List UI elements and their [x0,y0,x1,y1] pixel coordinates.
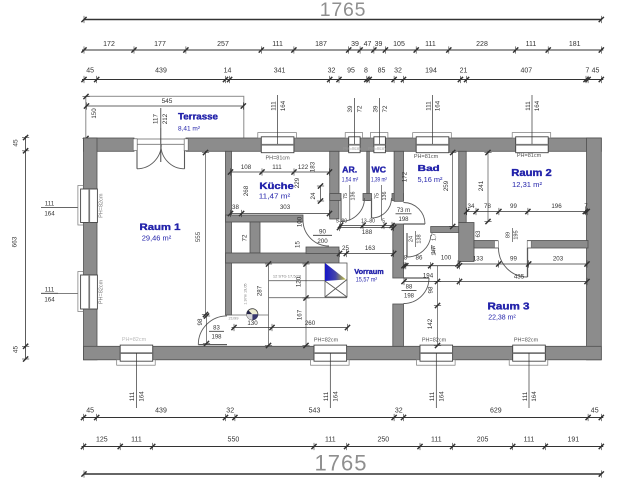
svg-text:Vorraum: Vorraum [354,267,384,276]
outer wall right [587,138,602,360]
svg-text:32: 32 [394,68,402,75]
svg-text:259: 259 [443,180,450,191]
svg-text:5: 5 [382,218,385,224]
svg-text:435: 435 [514,274,525,281]
svg-text:341: 341 [274,68,286,75]
window raum3 bottom sw [417,360,456,365]
svg-text:164: 164 [531,391,538,402]
svg-text:550: 550 [228,437,240,444]
stair outline lines [268,263,270,346]
svg-text:111: 111 [45,201,55,208]
door raum3 [404,277,430,279]
svg-text:164: 164 [44,211,55,218]
window raum1 left upper [78,186,83,226]
svg-text:303: 303 [280,204,291,211]
dim row top window edges [82,49,603,51]
svg-text:85: 85 [378,68,386,75]
wall pillar raum2 sw [459,223,474,262]
dim row bottom wall segments [82,417,604,419]
svg-text:45: 45 [86,68,94,75]
svg-text:32: 32 [226,408,234,415]
svg-text:39: 39 [347,105,354,112]
svg-text:PH=8cm: PH=8cm [368,146,386,151]
svg-text:111: 111 [131,437,142,444]
svg-text:75: 75 [375,193,381,199]
svg-text:191: 191 [567,437,579,444]
window raum3 bottom se [509,360,548,365]
svg-text:111: 111 [522,391,529,401]
window stair bottom [311,360,350,365]
svg-text:PH=82cm: PH=82cm [422,338,447,344]
svg-text:105: 105 [393,41,405,48]
kueche interior dims [230,171,330,173]
svg-text:75: 75 [343,193,349,199]
svg-text:111: 111 [526,41,537,48]
svg-text:183: 183 [310,161,317,172]
survey circle marker [247,309,258,320]
svg-text:14: 14 [224,68,232,75]
svg-text:PH=82cm: PH=82cm [99,279,105,304]
svg-text:125: 125 [96,437,108,444]
svg-text:Bad: Bad [418,163,440,173]
svg-text:24: 24 [409,236,415,242]
svg-text:138: 138 [416,234,422,243]
svg-text:12,31 m²: 12,31 m² [512,180,543,189]
svg-text:100: 100 [297,216,304,227]
svg-text:29,46 m²: 29,46 m² [142,234,172,243]
svg-text:86: 86 [416,255,423,262]
svg-text:164: 164 [534,100,541,111]
door corridor east [406,233,408,257]
svg-text:98: 98 [428,286,435,293]
wall kueche east / AR west [330,151,339,219]
svg-text:72: 72 [242,234,249,241]
wall raum1 east (W1) [226,151,232,315]
svg-text:8,41 m²: 8,41 m² [178,126,201,133]
svg-text:122: 122 [298,164,309,171]
svg-text:205: 205 [477,437,489,444]
svg-text:PH=81cm: PH=81cm [414,154,439,160]
door kueche [303,220,329,246]
svg-text:72: 72 [382,105,389,112]
svg-text:439: 439 [155,68,167,75]
svg-text:5,16 m²: 5,16 m² [418,175,443,184]
svg-text:99: 99 [510,203,517,210]
svg-text:1765: 1765 [320,0,367,21]
svg-text:164: 164 [439,391,446,402]
svg-text:167: 167 [297,309,304,320]
svg-text:21/99: 21/99 [228,316,239,321]
wall bad south [431,227,461,233]
svg-text:1,54 m²: 1,54 m² [342,178,359,184]
window kueche top [258,133,297,138]
svg-text:1765: 1765 [315,451,368,476]
dim row bottom window edges [82,446,604,448]
stair icon [325,263,347,297]
svg-text:111: 111 [45,287,55,294]
svg-text:78: 78 [484,203,491,210]
svg-text:45: 45 [13,346,20,354]
svg-text:111: 111 [525,101,532,111]
svg-text:7: 7 [586,68,590,75]
svg-text:PH=81cm: PH=81cm [265,156,290,162]
wall AR/WC partition [367,151,370,200]
svg-text:39: 39 [372,105,379,112]
svg-text:111: 111 [272,41,283,48]
svg-text:11,47 m²: 11,47 m² [259,192,291,201]
svg-text:111: 111 [270,101,277,111]
wall stairwell north [226,253,340,263]
svg-text:164: 164 [333,391,340,402]
svg-text:136: 136 [382,192,388,201]
terrasse dim 545 [86,105,244,107]
dim row top total 1765 [84,19,601,21]
wall AR/WC south stubs [330,194,341,201]
svg-text:164: 164 [435,100,442,111]
svg-text:45: 45 [13,139,20,147]
svg-text:21: 21 [460,68,468,75]
svg-text:629: 629 [490,408,502,415]
wall kueche south [226,215,304,222]
wall bad east / raum2 west [459,151,467,222]
svg-text:142: 142 [427,318,434,329]
svg-text:99: 99 [510,256,517,263]
svg-text:WC: WC [372,164,387,174]
wall nook stub [250,222,260,253]
wall raum2 south east part [528,241,589,249]
svg-text:287: 287 [257,285,264,296]
svg-text:136: 136 [351,192,357,201]
svg-text:439: 439 [155,408,167,415]
svg-text:228: 228 [476,41,488,48]
svg-text:241: 241 [478,180,485,191]
svg-text:108: 108 [241,164,252,171]
svg-text:268: 268 [243,185,250,196]
terrasse outline [86,96,244,139]
svg-text:15: 15 [295,241,302,248]
svg-text:39: 39 [351,41,359,48]
svg-text:1.97m 19,05: 1.97m 19,05 [244,283,248,304]
svg-text:663: 663 [12,236,19,247]
terrasse dim 150 [83,94,88,99]
svg-text:163: 163 [365,245,376,252]
svg-text:117: 117 [153,114,160,124]
svg-text:250: 250 [377,437,389,444]
svg-text:100: 100 [441,255,452,262]
door WC [371,198,373,218]
svg-text:Terrasse: Terrasse [178,112,218,123]
svg-text:188: 188 [362,229,373,236]
dim 130 260 [232,327,349,329]
window bad top [413,133,452,138]
svg-text:24: 24 [310,192,317,199]
svg-text:164: 164 [280,100,287,111]
wall vorraum/raum3 west mid [393,224,404,278]
door raum1 from stair area [198,344,227,346]
svg-text:203: 203 [553,256,564,263]
svg-text:PH=82cm: PH=82cm [314,338,339,344]
svg-text:194: 194 [425,68,437,75]
window AR top [345,133,362,138]
svg-text:98: 98 [197,318,204,325]
window raum2 top [512,133,551,138]
svg-text:198: 198 [404,294,415,300]
svg-text:8: 8 [364,68,368,75]
svg-text:147: 147 [431,245,437,254]
svg-text:45: 45 [591,408,599,415]
dim row top wall segments [82,79,603,81]
svg-text:88: 88 [406,285,413,291]
svg-text:172: 172 [103,41,115,48]
svg-text:111: 111 [425,101,432,111]
wall raum2 south west part [474,241,498,249]
door raum2 [527,248,529,277]
svg-text:1,7: 1,7 [432,233,438,241]
outer wall bottom [84,346,121,360]
svg-text:164: 164 [139,391,146,402]
svg-text:150: 150 [91,108,98,119]
svg-text:PH=82cm: PH=82cm [514,338,539,344]
svg-text:45: 45 [592,68,600,75]
svg-text:198: 198 [398,217,409,223]
svg-text:260: 260 [305,320,316,327]
svg-text:111: 111 [524,437,535,444]
svg-text:32: 32 [328,68,336,75]
svg-text:212: 212 [162,113,169,124]
window WC top [370,133,388,138]
svg-text:133: 133 [473,256,484,263]
svg-text:111: 111 [429,391,436,401]
svg-text:25: 25 [342,245,349,252]
svg-text:130: 130 [247,320,258,327]
outer wall left [84,138,98,189]
svg-text:89: 89 [506,232,512,238]
svg-text:543: 543 [309,408,321,415]
raum3 dims [458,263,588,265]
svg-text:83: 83 [213,326,220,332]
svg-text:545: 545 [162,98,173,105]
corridor dims [339,227,394,229]
svg-text:7: 7 [584,203,588,210]
svg-text:257: 257 [217,41,229,48]
svg-text:172: 172 [402,171,409,182]
window raum1 bottom [117,360,156,365]
svg-text:181: 181 [569,41,581,48]
svg-text:200: 200 [317,238,328,245]
door bad [404,223,426,225]
svg-text:195: 195 [513,230,519,239]
svg-text:PH=81cm: PH=81cm [517,153,542,159]
door AR [340,198,342,222]
svg-text:164: 164 [44,296,55,303]
dim col left 45/663/45 [25,136,27,359]
svg-text:177: 177 [154,41,166,48]
svg-text:111: 111 [272,164,282,171]
svg-text:63: 63 [475,230,482,237]
svg-text:Raum 3: Raum 3 [488,302,531,313]
svg-text:198: 198 [211,335,222,341]
svg-text:45: 45 [86,408,94,415]
svg-text:111: 111 [431,437,442,444]
wall WC east / Bad west upper [394,151,403,201]
svg-text:111: 111 [425,41,436,48]
svg-text:229: 229 [294,177,301,188]
svg-text:73 m: 73 m [397,208,410,214]
svg-text:196: 196 [551,203,562,210]
svg-text:PH=82cm: PH=82cm [122,337,147,343]
svg-text:22,38 m²: 22,38 m² [488,313,516,322]
svg-text:90: 90 [319,229,326,236]
svg-text:95: 95 [347,68,355,75]
svg-text:187: 187 [315,41,327,48]
svg-text:111: 111 [129,391,136,401]
svg-text:39: 39 [375,41,383,48]
svg-text:PH=8cm: PH=8cm [343,146,361,151]
svg-text:407: 407 [520,68,532,75]
svg-text:38: 38 [232,204,239,211]
svg-text:PH=82cm: PH=82cm [99,193,105,218]
svg-text:194: 194 [423,273,434,280]
wall vorraum/raum3 west low [393,304,404,346]
svg-text:Raum 2: Raum 2 [511,168,552,179]
svg-text:AR.: AR. [342,164,357,174]
svg-text:Raum 1: Raum 1 [140,222,181,232]
svg-text:32: 32 [395,408,403,415]
window raum1 left lower [78,272,83,312]
dim row bottom total 1765 [84,473,601,475]
door terrasse double french [135,143,186,145]
svg-text:47: 47 [364,41,372,48]
svg-text:1,39 m²: 1,39 m² [371,178,387,184]
svg-text:111: 111 [323,391,330,401]
svg-text:111: 111 [325,437,336,444]
svg-text:555: 555 [195,231,202,242]
svg-text:120: 120 [296,276,303,287]
svg-text:72: 72 [357,105,364,112]
svg-text:34: 34 [468,203,475,210]
outer wall top [84,138,135,151]
svg-text:15,57 m²: 15,57 m² [356,277,378,284]
